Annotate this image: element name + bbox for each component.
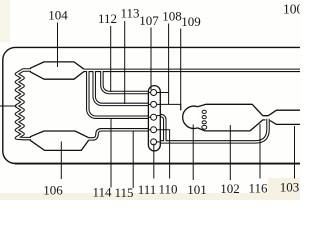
svg-text:110: 110 [158,182,177,197]
wire: c4 right line down to bottom edge (110) [154,130,170,179]
valve port c5 [151,139,157,145]
valve port c1 [151,90,157,96]
leader 102 [229,125,231,180]
svg-text:113: 113 [120,6,139,21]
svg-text:104: 104 [48,8,68,23]
cartridge outline bottom emphasis [15,163,301,165]
valve port c2 [151,101,157,107]
leader 113 [124,21,126,104]
valve port c4 [151,127,157,133]
beads inside chamber 102 [202,110,207,129]
wire: wall to c3 [148,116,153,118]
wire: c3 to right channel [157,115,161,117]
wire: branch Q3 to valve port level L1 [102,70,148,92]
bead 2 [202,116,206,119]
leader 116 [259,124,261,179]
chamber 104 (top elongated octagon) [30,62,84,79]
wire: wall to c4 [148,129,153,131]
leader 108 [168,24,170,105]
wire: channel from port c3 down to bottom channel [160,116,165,142]
svg-text:106: 106 [43,183,63,198]
wire: main channel from 104 to right edge [84,69,301,73]
svg-text:102: 102 [220,181,240,196]
cartridge outline [3,47,301,163]
svg-text:116: 116 [248,181,268,196]
leader 115 [132,131,134,189]
leader lines [0,21,295,188]
leader 114 [110,119,112,188]
wire: serpentine zigzag channel 105 [17,70,32,139]
wire: branch Q1 to valve port level L3 [88,70,149,117]
wire: c1 right line [154,92,169,94]
svg-text:109: 109 [181,14,201,29]
leader 101 [192,125,194,181]
bead 1 [202,110,206,113]
channel network (hollow double lines) [17,70,302,142]
wire: channel from chamber 106 to valve port L4 [89,130,149,139]
leader 105 stub at left edge [0,105,17,107]
wire: wall to c2 [148,103,153,105]
wire: wall to c1 [148,92,153,94]
leader 111 [153,144,155,179]
chamber 106 (bottom elongated octagon) [30,131,89,150]
chamber 102 and outlet 103 outline [198,104,302,131]
leader 103 [294,126,296,179]
bead 3 [202,121,206,124]
wire: branch Q2 to valve port level L2 [94,70,148,104]
leader 106 [60,142,62,180]
leader 112 [110,26,112,92]
svg-text:114: 114 [92,185,112,200]
wire: c2 right line to pump 101 [154,104,181,110]
valve port c3 [151,114,157,120]
pump chamber 101 (open circle) [183,106,198,128]
svg-text:111: 111 [138,182,157,197]
svg-text:103: 103 [280,180,300,195]
leader 104 [57,23,59,68]
port connector stubs [148,93,180,179]
wire: long bottom channel from port c5 to junction 116 [160,119,268,142]
bead 4 [202,125,207,129]
svg-text:115: 115 [114,185,133,200]
svg-text:101: 101 [187,182,207,197]
leader 109 [180,29,182,111]
svg-text:107: 107 [139,13,159,28]
valve body (vertical stadium) [148,86,160,151]
leader 107 [150,28,152,90]
svg-text:100: 100 [283,2,300,17]
svg-text:112: 112 [98,11,117,26]
wire: c5 to bottom channel [154,141,161,143]
svg-text:108: 108 [162,9,182,24]
